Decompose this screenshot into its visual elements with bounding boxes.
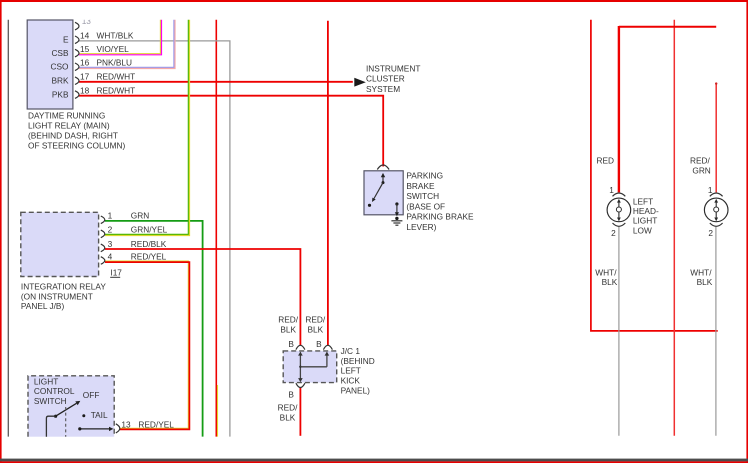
svg-text:INSTRUMENT: INSTRUMENT (366, 63, 420, 73)
svg-text:RED/YEL: RED/YEL (131, 251, 167, 261)
svg-text:RED/: RED/ (278, 403, 299, 413)
svg-text:GRN: GRN (131, 211, 149, 221)
svg-text:WHT/: WHT/ (595, 267, 617, 277)
svg-text:BLK: BLK (280, 412, 296, 422)
svg-text:B: B (288, 390, 294, 400)
svg-text:BLK: BLK (697, 277, 713, 287)
svg-text:LIGHT: LIGHT (34, 376, 58, 386)
svg-text:BLK: BLK (280, 324, 296, 334)
svg-text:LIGHT: LIGHT (633, 216, 657, 226)
svg-text:WHT/: WHT/ (690, 267, 712, 277)
svg-text:BRAKE: BRAKE (406, 181, 435, 191)
svg-text:2: 2 (708, 228, 713, 238)
svg-text:GRN/YEL: GRN/YEL (131, 225, 168, 235)
svg-text:4: 4 (108, 251, 113, 261)
svg-text:BLK: BLK (307, 324, 323, 334)
svg-text:LIGHT RELAY (MAIN): LIGHT RELAY (MAIN) (28, 120, 110, 130)
svg-text:BLK: BLK (602, 277, 618, 287)
svg-text:LEVER): LEVER) (406, 222, 436, 232)
svg-text:CSB: CSB (51, 48, 69, 58)
svg-text:KICK: KICK (341, 375, 361, 385)
svg-text:17: 17 (80, 71, 90, 81)
svg-text:RED/: RED/ (305, 315, 326, 325)
svg-text:INTEGRATION RELAY: INTEGRATION RELAY (21, 281, 106, 291)
svg-text:2: 2 (108, 225, 113, 235)
svg-text:(BEHIND DASH, RIGHT: (BEHIND DASH, RIGHT (28, 130, 118, 140)
svg-text:18: 18 (80, 85, 90, 95)
svg-text:OF STEERING COLUMN): OF STEERING COLUMN) (28, 141, 125, 151)
svg-text:LEFT: LEFT (633, 196, 653, 206)
svg-text:J/C 1: J/C 1 (341, 346, 361, 356)
svg-text:RED/: RED/ (690, 156, 711, 166)
svg-text:DAYTIME RUNNING: DAYTIME RUNNING (28, 110, 105, 120)
svg-text:16: 16 (80, 58, 90, 68)
svg-text:(ON INSTRUMENT: (ON INSTRUMENT (21, 291, 93, 301)
svg-text:RED: RED (596, 156, 614, 166)
svg-text:I17: I17 (110, 267, 122, 277)
svg-text:13: 13 (82, 16, 92, 26)
svg-text:1: 1 (708, 185, 713, 195)
svg-text:PKB: PKB (52, 89, 69, 99)
svg-text:(BASE OF: (BASE OF (406, 201, 445, 211)
svg-text:RED/BLK: RED/BLK (131, 239, 167, 249)
svg-text:2: 2 (611, 228, 616, 238)
svg-text:13: 13 (121, 420, 131, 430)
svg-text:CLUSTER: CLUSTER (366, 74, 405, 84)
svg-text:PANEL): PANEL) (341, 385, 371, 395)
svg-text:GRN: GRN (692, 166, 710, 176)
svg-text:BRK: BRK (51, 75, 69, 85)
svg-text:WHT/BLK: WHT/BLK (97, 31, 134, 41)
svg-text:3: 3 (108, 239, 113, 249)
svg-text:PARKING: PARKING (406, 171, 443, 181)
svg-text:LEFT: LEFT (341, 366, 361, 376)
svg-text:1: 1 (108, 211, 113, 221)
svg-text:SWITCH: SWITCH (406, 191, 439, 201)
svg-text:RED/WHT: RED/WHT (97, 85, 136, 95)
svg-text:CONTROL: CONTROL (34, 386, 75, 396)
svg-text:E: E (63, 35, 69, 45)
svg-text:SYSTEM: SYSTEM (366, 84, 400, 94)
svg-text:14: 14 (80, 31, 90, 41)
svg-text:(BEHIND: (BEHIND (341, 356, 375, 366)
svg-text:TAIL: TAIL (91, 410, 108, 420)
svg-text:B: B (316, 339, 322, 349)
svg-text:PANEL J/B): PANEL J/B) (21, 301, 65, 311)
svg-text:SWITCH: SWITCH (34, 396, 67, 406)
svg-text:RED/WHT: RED/WHT (97, 71, 136, 81)
svg-text:B: B (288, 339, 294, 349)
svg-text:RED/: RED/ (278, 315, 299, 325)
svg-text:CSO: CSO (51, 62, 70, 72)
svg-text:1: 1 (609, 185, 614, 195)
svg-text:RED/YEL: RED/YEL (138, 420, 174, 430)
svg-text:HEAD-: HEAD- (633, 206, 659, 216)
svg-text:LOW: LOW (633, 225, 652, 235)
svg-text:OFF: OFF (83, 390, 100, 400)
svg-text:15: 15 (80, 44, 90, 54)
svg-text:PARKING BRAKE: PARKING BRAKE (406, 212, 474, 222)
svg-text:PNK/BLU: PNK/BLU (97, 58, 133, 68)
svg-text:VIO/YEL: VIO/YEL (97, 44, 130, 54)
